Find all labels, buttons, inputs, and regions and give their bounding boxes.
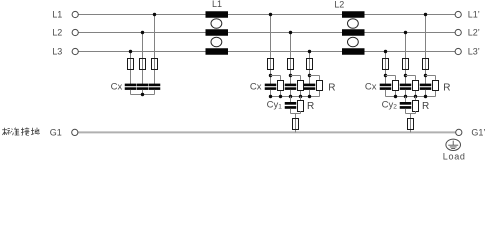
wire drop from L3 to left Cx bank [130,52,132,85]
label G1 [50,127,62,137]
svg-text:G1: G1 [50,127,62,137]
wire Cy resistor bottom stub (right) [415,111,417,113]
terminal L3 (input) [72,48,78,54]
junction middle rail at x=280.5 [279,95,282,98]
junction L1 / middle bank tap [269,13,272,16]
junction middle rail at x=270.5 [269,95,272,98]
fuse (middle bank, L2 branch) [288,59,294,70]
wire cap bottom stub (middle L2) [290,90,292,97]
fuse (middle bank, L1 branch) [268,59,274,70]
resistor R (Cy discharge, middle bank) [298,101,304,112]
inductor L1 (three-phase common-mode choke) [206,11,229,55]
fuse (right bank, L3 branch) [383,59,389,70]
junction L3 / middle bank tap [308,50,311,53]
fuse (left bank, L3 branch) [128,59,134,70]
wire cap bottom stub (left bank, L3) [130,90,132,95]
capacitor Cx (left bank, L3 branch) [125,84,137,90]
wire resistor bottom stub (middle L3) [319,91,321,97]
wire resistor bottom stub (right L3) [395,91,397,97]
svg-text:Cx: Cx [365,82,377,93]
wire cap bottom stub (middle L1) [270,90,272,97]
capacitor Cx (middle bank, L1 branch) [265,84,277,90]
fuse (right bank ground leg) [408,119,414,130]
wire cap bottom stub (middle L3) [309,90,311,97]
wire net G1 (standard ground bus) [78,131,456,133]
svg-text:L2: L2 [334,0,344,9]
label 标准接地 (standard grounding) [2,127,39,135]
resistor R (bleeder, middle bank, L3 branch) [317,81,323,91]
wire middle bank ground rail [291,113,301,115]
terminal L2' (output) [455,29,461,35]
svg-text:R: R [328,82,335,93]
resistor R (Cy discharge, right bank) [413,101,419,112]
junction L1 / right bank tap [424,13,427,16]
terminal L2 (input) [72,29,78,35]
junction L2 / middle bank tap [289,31,292,34]
wire cap bottom stub (right L1) [425,90,427,97]
wire Cy resistor bottom stub (middle) [300,111,302,113]
wire cap bottom stub (left bank, L2) [142,90,144,95]
junction middle rail at x=300.5 [299,95,302,98]
terminal L1' (output) [455,11,461,17]
resistor R (bleeder, middle bank, L1 branch) [278,81,284,91]
capacitor Cy2 (right bank, line-to-ground) [400,102,412,109]
terminal G1 (ground input) [72,129,78,135]
wire elbow to bleeder resistor (right L3) [386,76,396,80]
svg-text:Cy2: Cy2 [382,99,398,110]
capacitor Cx (middle bank, L3 branch) [304,84,316,90]
ground (protective earth symbol at load) [446,139,461,150]
junction middle rail at x=309.5 [308,95,311,98]
wire Cy resistor top stub (middle) [300,97,302,101]
wire Cy top stub (middle) [290,97,292,103]
capacitor Cx (right bank, L3 branch) [380,84,392,90]
terminal L3' (output) [455,48,461,54]
label L2 (choke) [334,0,344,9]
junction middle bank L3 branch node [308,74,311,77]
wire cap bottom stub (right L3) [385,90,387,97]
label L2' [468,28,480,38]
label Cx (right bank) [365,82,377,93]
resistor R (bleeder, middle bank, L2 branch) [298,81,304,91]
capacitor Cx (right bank, L1 branch) [420,84,432,90]
label L1' [468,10,480,20]
wire right bank collector rail [386,96,436,98]
label G1' [471,127,485,137]
junction middle bank L2 branch node [289,74,292,77]
svg-text:Cx: Cx [111,82,123,93]
wire elbow to bleeder resistor (right L1) [426,76,436,80]
fuse (left bank, L2 branch) [140,59,146,70]
label L1 [52,10,62,20]
junction right bank L1 branch node [424,74,427,77]
wire resistor bottom stub (right L1) [435,91,437,97]
junction L2 / right bank tap [404,31,407,34]
resistor R (bleeder, right bank, L3 branch) [393,81,399,91]
wire elbow to bleeder resistor (middle L1) [271,76,281,80]
junction right rail at x=395.5 [394,95,397,98]
junction L1 / left bank tap [153,13,156,16]
label R (Cy discharge, right) [422,101,429,112]
svg-text:R: R [307,101,314,112]
wire net L2 (phase line) [78,32,455,34]
svg-text:Load: Load [443,151,466,161]
junction right bank L3 branch node [384,74,387,77]
capacitor Cy1 (middle bank, line-to-ground) [285,102,297,109]
wire resistor bottom stub (middle L1) [280,91,282,97]
svg-text:L2’: L2’ [468,28,480,38]
wire Cy bottom stub (right) [405,109,407,114]
junction left bank star point [141,93,144,96]
wire cap bottom stub (right L2) [405,90,407,97]
resistor R (bleeder, right bank, L2 branch) [413,81,419,91]
junction L3 / left bank tap [129,50,132,53]
wire right bank drop to fuse [410,114,412,133]
label L2 [52,28,62,38]
wire right bank ground rail [406,113,416,115]
resistor R (bleeder, right bank, L1 branch) [433,81,439,91]
junction L3 / right bank tap [384,50,387,53]
junction right rail at x=425.5 [424,95,427,98]
capacitor Cx (right bank, L2 branch) [400,84,412,90]
wire cap bottom stub (left bank, L1) [154,90,156,95]
junction middle rail at x=290.5 [289,95,292,98]
label L3 [52,47,62,57]
svg-text:L1: L1 [212,0,222,9]
wire middle bank collector rail [271,96,320,98]
wire drop from L1 to middle bank [270,15,272,85]
wire elbow to bleeder resistor (right L2) [406,76,416,80]
wire drop from L2 to middle bank [290,33,292,85]
capacitor Cx (left bank, L1 branch) [149,84,161,90]
label R (Cy discharge, middle) [307,101,314,112]
svg-text:R: R [422,101,429,112]
wire Cy top stub (right) [405,97,407,103]
label Cx (left bank) [111,82,123,93]
capacitor Cx (left bank, L2 branch) [137,84,149,90]
wire resistor bottom stub (middle L2) [300,91,302,97]
wire net L1 (phase line) [78,14,455,16]
wire resistor bottom stub (right L2) [415,91,417,97]
wire drop from L3 to right bank [385,52,387,85]
wire drop from L1 to left Cx bank [154,15,156,85]
wire drop from L2 to left Cx bank [142,33,144,85]
svg-text:G1’: G1’ [471,127,485,137]
terminal L1 (input) [72,11,78,17]
svg-text:Cy1: Cy1 [267,99,283,110]
wire Cy bottom stub (middle) [290,109,292,114]
wire elbow to bleeder resistor (middle L2) [291,76,301,80]
junction right rail at x=415.5 [414,95,417,98]
fuse (middle bank ground leg) [293,119,299,130]
junction right rail at x=405.5 [404,95,407,98]
svg-text:Cx: Cx [250,82,262,93]
label R (right bank bleeders) [443,82,450,93]
terminal G1' (ground output) [456,129,462,135]
wire left bank star rail [131,94,155,96]
junction middle bank L1 branch node [269,74,272,77]
svg-text:L2: L2 [52,28,62,38]
fuse (right bank, L2 branch) [403,59,409,70]
fuse (middle bank, L3 branch) [307,59,313,70]
capacitor Cx (middle bank, L2 branch) [285,84,297,90]
label Load [443,151,466,161]
inductor L2 (three-phase common-mode choke) [342,11,365,55]
fuse (left bank, L1 branch) [152,59,158,70]
svg-text:L3’: L3’ [468,47,480,57]
wire elbow to bleeder resistor (middle L3) [310,76,320,80]
wire drop from L2 to right bank [405,33,407,85]
wire middle bank drop to fuse [295,114,297,133]
svg-text:L1: L1 [52,10,62,20]
wire net L3 (phase line) [78,51,455,53]
label Cy1 [267,99,283,110]
label L1 (choke) [212,0,222,9]
svg-text:R: R [443,82,450,93]
label Cx (middle bank) [250,82,262,93]
junction right bank L2 branch node [404,74,407,77]
wire drop from L1 to right bank [425,15,427,85]
wire Cy resistor top stub (right) [415,97,417,101]
svg-text:L1’: L1’ [468,10,480,20]
wire drop from L3 to middle bank [309,52,311,85]
label Cy2 [382,99,398,110]
svg-text:L3: L3 [52,47,62,57]
fuse (right bank, L1 branch) [423,59,429,70]
junction L2 / left bank tap [141,31,144,34]
label R (middle bank bleeders) [328,82,335,93]
label L3' [468,47,480,57]
